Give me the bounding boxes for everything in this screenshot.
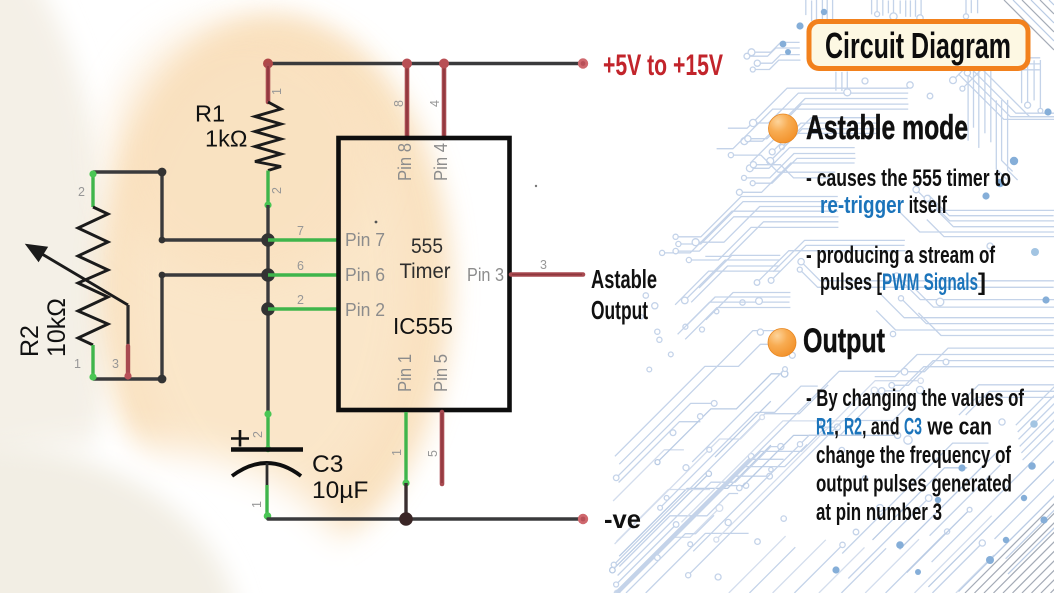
svg-text:Output: Output [803,322,885,360]
wire pin1 tail to ground bus [404,483,407,519]
svg-text:8: 8 [392,100,406,107]
svg-text:- producing a stream of: - producing a stream of [806,242,996,269]
wire wiper vertical drop [126,305,129,346]
node bend dot at (162,172) [158,168,167,177]
node green endpoint C3 bottom [264,512,272,520]
node red endpoint pot pin3 [124,372,131,379]
wire vertical bus node A to node C [266,240,269,309]
potentiometer R2 wiper arrow [42,254,128,305]
node top bus right endpoint (red dot) [578,58,588,68]
svg-text:1: 1 [390,449,404,456]
svg-text:3: 3 [112,357,119,371]
svg-text:Pin 4: Pin 4 [430,143,451,181]
pcb trace pattern [610,0,1054,593]
node B junction (268,275) [261,268,275,282]
wire green pot pin 2 lead [91,172,94,207]
svg-text:- causes the 555 timer to: - causes the 555 timer to [806,165,1011,192]
svg-text:10µF: 10µF [312,477,368,504]
wire green Pin 6 [268,273,340,276]
node top bus left endpoint (red dot) [263,59,273,69]
background pale left blob [0,0,110,593]
svg-text:Circuit Diagram: Circuit Diagram [825,25,1011,66]
wire red Pin 5 stub [440,412,445,484]
node green endpoint R1 bottom [264,201,271,208]
wire green C3 top lead [266,412,269,450]
svg-text:1kΩ: 1kΩ [205,126,247,152]
svg-text:4: 4 [428,100,442,107]
svg-text:re-trigger itself: re-trigger itself [820,192,948,219]
resistor R1 [255,102,281,171]
svg-text:IC555: IC555 [393,313,453,339]
svg-text:Timer: Timer [400,259,451,283]
wire green C3 bottom lead [265,485,268,519]
node ground junction (406,519) [399,512,413,526]
background pale bottom-left blob [0,445,240,593]
svg-text:555: 555 [411,234,443,258]
svg-text:Astable: Astable [591,264,657,294]
svg-text:7: 7 [297,224,304,238]
svg-text:5: 5 [426,450,440,457]
wire node C down to C3 [266,309,269,414]
node ground bus right endpoint (red dot) [578,514,588,524]
wire red pot pin 3 lead [126,346,130,377]
node green endpoint pin1 [402,479,409,486]
svg-text:3: 3 [540,258,547,272]
wire red Pin 4 supply [442,65,447,138]
node green endpoint C3 top [264,410,271,417]
svg-text:R1, R2, and C3 we can: R1, R2, and C3 we can [816,414,992,441]
svg-text:Pin 3: Pin 3 [467,264,504,285]
bullet ball output [768,329,796,357]
node green endpoint pot pin1 [89,373,96,380]
wire top +V bus [267,62,583,65]
svg-text:-ve: -ve [604,504,641,534]
wire node B left to pot bottom rail [93,275,268,379]
svg-text:output pulses generated: output pulses generated [816,471,1012,498]
capacitor C3 curved plate [232,463,301,476]
artifact dot above Pin 7 [375,221,378,224]
potentiometer R2 body [78,207,108,345]
wire C3 inner stem [266,463,269,487]
svg-text:1: 1 [270,88,284,95]
svg-text:Astable mode: Astable mode [806,109,968,147]
capacitor C3 top plate [231,447,303,451]
node red dot pin4 top [439,59,449,69]
node bend dot at (162,240) [159,237,166,244]
svg-text:Pin 7: Pin 7 [345,229,385,250]
capacitor C3 plus sign [231,430,249,447]
node bend dot at (162,275) [159,272,166,279]
svg-text:- By changing the values of: - By changing the values of [806,385,1025,412]
wire node A left to pot top corner [93,172,268,240]
wire green Pin 1 ground lead [404,412,407,484]
background peach circle [100,16,452,560]
svg-text:2: 2 [78,185,85,199]
svg-text:R2: R2 [16,325,44,357]
svg-text:Pin 8: Pin 8 [394,143,415,181]
wire green Pin 2 [268,307,340,310]
svg-text:1: 1 [250,501,264,508]
op IC555 body [339,138,510,410]
wire green pot pin 1 lead [91,345,94,379]
svg-text:R1: R1 [195,101,225,127]
svg-text:1: 1 [74,357,81,371]
wire green Pin 7 [268,238,340,241]
svg-text:Pin 1: Pin 1 [394,354,415,392]
svg-text:Pin 6: Pin 6 [345,264,385,285]
wire red Pin 8 supply [405,65,410,138]
svg-text:change the frequency of: change the frequency of [816,442,1012,469]
svg-text:at pin number 3: at pin number 3 [816,499,942,526]
node bend dot at (162,379) [158,375,167,384]
wire green R1 bottom lead (pin 2) [266,171,269,208]
svg-text:2: 2 [251,431,265,438]
wire R1 tail to node A [266,205,269,240]
node green endpoint pot pin2 [89,170,96,177]
wire ground bus [268,517,583,520]
svg-text:Pin 5: Pin 5 [430,354,451,392]
svg-text:C3: C3 [312,451,343,478]
wire red Pin 3 output [511,272,583,277]
svg-text:Pin 2: Pin 2 [345,299,385,320]
svg-text:2: 2 [270,187,284,194]
background white eraser bottom-left [0,445,360,593]
svg-text:Output: Output [591,295,648,325]
artifact dot above Pin 3 wire [535,185,537,187]
svg-text:2: 2 [297,293,304,307]
svg-text:pulses [PWM Signals]: pulses [PWM Signals] [820,269,986,296]
bullet ball astable [769,114,798,143]
node C junction (268,309) [261,302,275,316]
node red dot pin8 top [402,59,412,69]
svg-text:10kΩ: 10kΩ [43,298,71,357]
node A junction (268,240) [261,233,275,247]
svg-text:6: 6 [297,259,304,273]
wire red R1 top lead (pin 1) [266,65,271,102]
svg-text:+5V to +15V: +5V to +15V [603,49,723,82]
title box Circuit Diagram [809,22,1028,69]
